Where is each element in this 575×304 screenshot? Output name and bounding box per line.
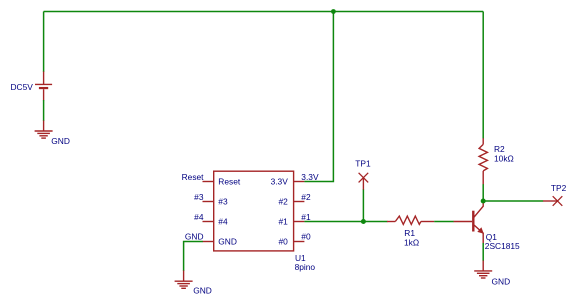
pin label #0 (outside) [301,232,311,242]
wire top rail [44,11,484,13]
junction (TP1 node) [361,219,366,224]
pin name 3.3V (inside) [271,176,289,186]
refdes U1 [295,253,306,263]
svg-text:#0: #0 [301,232,311,242]
pin #4 (left 3) [203,221,214,223]
wire left drop to battery [43,12,45,73]
svg-text:R1: R1 [404,228,415,238]
wire emitter to ground [482,243,484,261]
svg-text:GND: GND [185,232,204,242]
svg-text:2SC1815: 2SC1815 [485,241,520,251]
label DC5V [11,82,34,92]
wire 3.3V riser [304,12,333,182]
pin GND (left 4) [203,241,214,243]
svg-text:8pino: 8pino [295,262,316,272]
svg-text:#3: #3 [218,196,228,206]
resistor R2 [479,138,487,184]
svg-text:GND: GND [492,277,511,287]
pin name #0 (inside) [278,236,288,246]
svg-text:#1: #1 [301,212,311,222]
svg-text:#1: #1 [278,216,288,226]
test point TP1 [359,173,369,190]
wire TP1 to node [362,190,364,222]
pin name #2 (inside) [278,196,288,206]
net label 3.3V (right of pin) [301,172,319,182]
pin #3 (left 2) [203,201,214,203]
svg-text:GND: GND [218,236,237,246]
svg-text:TP1: TP1 [355,159,371,169]
svg-text:#2: #2 [278,196,288,206]
wire collector node to TP2 [483,200,543,202]
junction (collector node) [481,199,486,204]
svg-text:3.3V: 3.3V [301,172,319,182]
refdes Q1 [486,232,498,242]
svg-text:#4: #4 [194,212,204,222]
pin Reset (left 1) [203,181,214,183]
pin name #1 (inside) [278,216,288,226]
wire R2 to collector node [482,184,484,201]
value 10kΩ [494,154,514,164]
label TP2 [551,183,567,193]
pin label #4 (outside) [194,212,204,222]
wire battery to ground [43,100,45,121]
test point TP2 [543,196,562,206]
svg-text:GND: GND [193,285,212,295]
pin #1 (right 3) [294,221,305,223]
wire #1 to R1 [304,221,387,223]
svg-text:Reset: Reset [182,172,205,182]
pin 3.3V (right 1) [294,181,305,183]
svg-text:TP2: TP2 [551,183,567,193]
net label GND (outside) [185,232,204,242]
IC U1 body [214,171,294,251]
svg-text:1kΩ: 1kΩ [404,237,419,247]
svg-text:R2: R2 [494,144,505,154]
wire top rail right drop to R2 [482,12,484,139]
wire IC GND pin to ground [184,242,203,272]
ground (emitter) [474,261,492,279]
svg-text:DC5V: DC5V [11,82,34,92]
wire R1 to Q1 base [434,221,454,223]
pin name GND (inside) [218,236,237,246]
pin #2 (right 2) [294,201,305,203]
pin name Reset (inside) [218,176,241,186]
value 1kΩ [404,237,419,247]
svg-text:#3: #3 [194,192,204,202]
pin label #3 (outside) [194,192,204,202]
value 8pino [295,262,316,272]
battery DC5V [35,72,52,101]
label GND (battery ground) [51,136,70,146]
refdes R1 [404,228,415,238]
label TP1 [355,159,371,169]
value 2SC1815 [485,241,520,251]
transistor Q1 [454,202,484,244]
resistor R1 [387,216,434,224]
pin name #3 (inside) [218,196,228,206]
svg-text:Reset: Reset [218,176,241,186]
pin label #2 (outside) [301,192,311,202]
ground (IC) [175,271,193,289]
pin #0 (right 4) [294,241,305,243]
refdes R2 [494,144,505,154]
svg-text:#4: #4 [218,216,228,226]
svg-text:GND: GND [51,136,70,146]
junction (3.3V rail) [331,9,336,14]
svg-text:10kΩ: 10kΩ [494,154,514,164]
pin label Reset (outside) [182,172,205,182]
pin name #4 (inside) [218,216,228,226]
label GND (IC ground) [193,285,212,295]
label GND (emitter ground) [492,277,511,287]
svg-text:3.3V: 3.3V [271,176,289,186]
ground (battery) [35,121,53,139]
pin label #1 (outside) [301,212,311,222]
svg-text:#0: #0 [278,236,288,246]
svg-text:#2: #2 [301,192,311,202]
